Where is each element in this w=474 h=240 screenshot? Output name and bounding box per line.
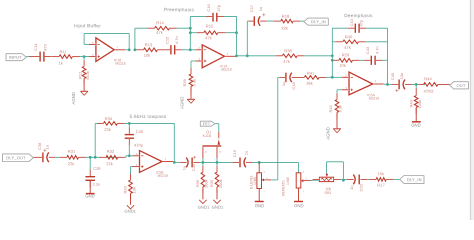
wire dry rail to R38 [237, 55, 283, 57]
svg-text:1: 1 [263, 190, 265, 193]
capacitor C44 [348, 18, 366, 32]
svg-text:5.6kHz lowpass: 5.6kHz lowpass [129, 114, 166, 119]
svg-text:100k: 100k [204, 179, 209, 188]
op-amp IC1B [89, 38, 126, 66]
wire delay-send riser to C17 [246, 21, 253, 57]
node A1: R11 / R12 / IC1B +in, junction [73, 55, 93, 66]
capacitor C43 [364, 46, 382, 65]
svg-text:Preemphasis: Preemphasis [164, 7, 195, 12]
capacitor C14 [29, 43, 51, 62]
svg-text:R36: R36 [195, 179, 200, 187]
wire IC1B feedback loop [84, 34, 130, 52]
flag FET [200, 121, 215, 126]
svg-text:C40: C40 [136, 129, 144, 134]
svg-text:1: 1 [375, 79, 377, 83]
svg-text:C39: C39 [93, 166, 100, 171]
op-amp IC5A [342, 72, 384, 100]
svg-text:R29: R29 [342, 52, 350, 57]
wire C20 to R17 [361, 178, 377, 180]
svg-text:3.3k: 3.3k [338, 105, 343, 113]
ground GND under D-LEVEL [255, 202, 265, 209]
svg-text:100k: 100k [218, 179, 223, 188]
ground AGND under R12 [71, 91, 88, 104]
svg-text:M5218: M5218 [221, 68, 231, 72]
svg-text:47k: 47k [344, 45, 352, 50]
svg-text:Input Buffer: Input Buffer [74, 23, 101, 28]
svg-text:3.3n: 3.3n [92, 182, 100, 187]
svg-text:S: S [219, 150, 221, 154]
svg-text:C44: C44 [349, 18, 354, 26]
wire R34 feedback rail [95, 122, 176, 164]
svg-text:3: 3 [263, 171, 265, 174]
svg-text:C43: C43 [365, 46, 370, 54]
deemphasis right bus [386, 28, 389, 86]
svg-text:R33: R33 [123, 185, 128, 193]
resistor R34 [97, 116, 125, 132]
svg-text:10kB: 10kB [286, 177, 290, 185]
svg-text:R44: R44 [424, 76, 432, 81]
resistor R12 [77, 60, 90, 91]
svg-text:4.7n: 4.7n [375, 46, 380, 54]
wire SR1 wiper loop, junction [327, 162, 345, 182]
flag DLY_IN (return) [400, 176, 424, 184]
capacitor C18 [280, 73, 299, 90]
svg-text:GND: GND [411, 123, 421, 128]
wire IC1A output [236, 55, 237, 58]
svg-text:AGND: AGND [180, 97, 185, 109]
wire C39 tap [89, 157, 91, 176]
wire R13 to C15 [158, 49, 172, 51]
svg-text:22k: 22k [106, 161, 114, 166]
svg-text:K118: K118 [203, 134, 211, 138]
resistor R32 [99, 149, 125, 166]
window edge band [470, 0, 474, 220]
wire INPUT flag to C14 [26, 56, 39, 58]
rail C19 to pots, junction [246, 161, 295, 164]
wire REPEATS wiper to SR1 [303, 179, 319, 181]
svg-text:1u: 1u [281, 82, 286, 86]
ground GND1 under R33 [124, 205, 136, 213]
svg-text:7: 7 [117, 45, 119, 49]
wire R14 to bus [170, 27, 191, 29]
wire IC1A +in to R39 [191, 61, 199, 74]
svg-text:510k: 510k [85, 71, 90, 80]
flag INPUT [6, 54, 26, 61]
svg-text:10u: 10u [399, 73, 404, 80]
svg-text:AGND: AGND [326, 127, 331, 139]
potentiometer D-LEVEL 10kB [249, 162, 271, 201]
svg-text:GND: GND [294, 203, 304, 208]
svg-text:1: 1 [227, 52, 229, 56]
capacitor C15 [164, 36, 182, 55]
svg-text:R11: R11 [59, 49, 67, 54]
svg-text:REPEATS: REPEATS [281, 180, 285, 196]
trimmer SR1 10k [313, 174, 341, 195]
svg-text:22k: 22k [281, 26, 289, 31]
capacitor C17 [249, 4, 267, 26]
svg-text:R41: R41 [307, 71, 315, 76]
svg-text:R35: R35 [209, 179, 214, 187]
svg-text:M5218: M5218 [115, 62, 125, 66]
resistor R13 [137, 42, 165, 58]
capacitor C41 [180, 156, 200, 172]
potentiometer REPEATS 10kB [281, 171, 310, 201]
svg-text:R13: R13 [145, 42, 153, 47]
ground GND under R43 [411, 122, 421, 128]
svg-text:10kB: 10kB [253, 177, 257, 185]
svg-text:1: 1 [303, 190, 305, 193]
wire C18 rail to R41 to mixer bus [278, 76, 333, 78]
svg-text:R14: R14 [156, 20, 164, 25]
resistor R41 [297, 71, 326, 86]
wire mixer bus to IC5A -in [332, 76, 346, 78]
svg-text:R12: R12 [77, 71, 82, 79]
svg-text:C15: C15 [164, 36, 169, 44]
capacitor C45 [390, 72, 411, 92]
wire R29-C43 rail [332, 59, 387, 61]
resistor R29 [334, 52, 360, 68]
wire R38 to mixer bus [297, 55, 332, 57]
wire IC5A output to C45 [384, 83, 398, 85]
resistor R39 [182, 68, 197, 99]
wire FET flag to Q1 gate [215, 124, 219, 139]
wire Q1 drain/source taps [203, 158, 217, 172]
wire R40 rail [332, 41, 387, 43]
svg-text:GND1: GND1 [198, 205, 210, 210]
wire SR1 to C20 [334, 178, 352, 180]
svg-text:DLY_IN: DLY_IN [311, 19, 326, 24]
capacitor C40 [125, 127, 144, 147]
svg-text:1k: 1k [59, 60, 64, 65]
transistor Q1 [203, 130, 222, 158]
capacitor C16 [206, 3, 224, 21]
ground AGND under R39 [180, 97, 195, 109]
svg-text:100k: 100k [417, 100, 422, 109]
svg-text:1u: 1u [244, 151, 249, 155]
svg-text:1u: 1u [349, 186, 354, 190]
wire R18 to DLY_IN flag [293, 20, 304, 22]
capacitor C20 [347, 175, 367, 192]
wire R32 to IC5B -in [126, 156, 136, 158]
lowpass output rail C41 to C19, junctions [193, 161, 236, 164]
ground GND under C39 [85, 193, 94, 198]
svg-text:47p: 47p [216, 4, 221, 11]
svg-text:473: 473 [43, 43, 48, 50]
svg-text:AGND: AGND [71, 92, 76, 104]
resistor R11 [52, 49, 80, 65]
wire C15 to IC1A -in, junction [176, 48, 200, 51]
section title Input Buffer [74, 23, 101, 28]
resistor R43 [408, 88, 422, 121]
section title Preemphasis [164, 7, 195, 12]
ground GND1 under R36 [198, 200, 210, 210]
wet-mix riser wiper to C18 [277, 77, 279, 179]
capacitor C38 [34, 142, 55, 162]
ground AGND under R42 [326, 127, 341, 139]
svg-text:R31: R31 [68, 149, 76, 154]
svg-text:Deemphasis: Deemphasis [344, 13, 373, 18]
svg-text:C14: C14 [33, 43, 38, 51]
wire IC1B output to R13 [135, 49, 144, 51]
svg-text:GND: GND [85, 193, 94, 198]
wire IC5B output to C41 [173, 161, 186, 164]
svg-text:R15: R15 [206, 23, 214, 28]
svg-text:47k: 47k [156, 30, 164, 35]
wire C45 to R44, junction [405, 83, 425, 86]
svg-text:GND: GND [255, 203, 265, 208]
svg-text:10k: 10k [339, 63, 347, 68]
svg-text:C17: C17 [249, 4, 254, 12]
resistor R14 [148, 20, 177, 35]
wire C17 to R18 [260, 20, 280, 22]
wire to REPEATS top [295, 162, 299, 172]
lowpass node rail R31 to R32, junctions [79, 156, 126, 159]
svg-text:D: D [205, 150, 207, 154]
wire C16 rail [190, 15, 236, 17]
section title 5.6kHz lowpass [129, 114, 166, 119]
ground GND1 under R35 [212, 200, 224, 210]
flag DLY_IN (send) [304, 18, 329, 25]
capacitor C39 [85, 166, 100, 193]
preemphasis left bus [189, 16, 192, 49]
resistor R18 [274, 14, 301, 31]
svg-text:7: 7 [164, 157, 166, 161]
op-amp IC5B [133, 151, 174, 178]
wire D-LEVEL wiper [264, 179, 278, 181]
svg-text:R43: R43 [408, 99, 413, 107]
svg-text:SR1: SR1 [324, 191, 331, 195]
svg-text:C18: C18 [291, 81, 296, 89]
ground GND under REPEATS [294, 202, 304, 209]
svg-text:GND1: GND1 [212, 205, 224, 210]
resistor R31 [60, 149, 86, 166]
resistor R36 [195, 166, 209, 199]
svg-text:47k: 47k [205, 35, 213, 40]
svg-text:R34: R34 [105, 116, 113, 121]
svg-text:1u: 1u [258, 7, 263, 11]
preemphasis right bus [235, 16, 238, 57]
resistor R38 [275, 48, 304, 64]
flag DLY_OUT [3, 154, 34, 162]
wire DLY_OUT flag to C38 [33, 156, 41, 158]
wire IC1B output to R14 branch, junction [134, 28, 155, 51]
svg-text:R32: R32 [107, 149, 115, 154]
svg-text:OUT: OUT [456, 83, 465, 88]
svg-text:DLY_IN: DLY_IN [407, 177, 422, 182]
capacitor C19 [232, 149, 253, 167]
svg-text:15k: 15k [378, 171, 386, 176]
svg-text:470Ω: 470Ω [424, 89, 434, 94]
wire C38 to R31 [49, 156, 67, 158]
wire junction to R43 [415, 84, 417, 88]
svg-text:C20: C20 [359, 183, 364, 191]
svg-text:36k: 36k [306, 81, 314, 86]
svg-text:C16: C16 [206, 3, 211, 11]
svg-text:22k: 22k [104, 127, 112, 132]
svg-text:10k: 10k [131, 187, 136, 193]
svg-text:R17: R17 [377, 182, 385, 187]
svg-text:R38: R38 [284, 48, 292, 53]
svg-text:INPUT: INPUT [9, 55, 22, 60]
resistor R17 [369, 171, 393, 187]
svg-text:GND1: GND1 [124, 209, 136, 214]
wire C44 rail [332, 27, 387, 29]
svg-text:1u: 1u [45, 145, 50, 149]
svg-text:R42: R42 [328, 104, 333, 112]
svg-text:10k: 10k [144, 53, 152, 58]
svg-text:M5218: M5218 [369, 97, 379, 101]
svg-text:3: 3 [303, 171, 305, 174]
flag OUT [450, 82, 469, 89]
section title Deemphasis [344, 13, 373, 18]
op-amp IC1A [195, 45, 235, 72]
svg-text:47k: 47k [283, 59, 291, 64]
svg-text:C19: C19 [232, 149, 237, 157]
svg-text:R39: R39 [182, 78, 187, 86]
svg-text:470p: 470p [134, 143, 144, 148]
resistor R33 [123, 174, 137, 205]
svg-text:22k: 22k [68, 161, 76, 166]
svg-text:C38: C38 [37, 142, 42, 150]
resistor R40 [336, 34, 366, 50]
svg-text:4.7n: 4.7n [174, 36, 179, 44]
resistor R15 [197, 23, 225, 40]
resistor R35 [209, 166, 223, 199]
resistor R44 [418, 76, 449, 93]
wire IC5A +in to R42 [337, 90, 346, 100]
wire C14 to R11 [45, 56, 59, 58]
svg-text:R40: R40 [345, 34, 353, 39]
wire C40 taps [128, 123, 131, 157]
wire R17 to DLY_IN flag [386, 178, 399, 180]
wire R15 rail [190, 32, 236, 34]
deemphasis left bus [331, 28, 334, 79]
svg-text:C45: C45 [390, 72, 395, 80]
svg-text:M5218: M5218 [157, 174, 167, 178]
svg-text:C41: C41 [191, 163, 196, 171]
wire IC5B +in to R33 [131, 167, 137, 180]
resistor R42 [328, 93, 343, 128]
svg-text:FET: FET [203, 122, 211, 126]
svg-text:DLY_OUT: DLY_OUT [6, 155, 26, 160]
svg-text:3.3k: 3.3k [192, 79, 197, 87]
svg-text:47p: 47p [359, 19, 364, 26]
svg-text:R18: R18 [282, 14, 290, 19]
svg-text:1u: 1u [181, 166, 186, 170]
